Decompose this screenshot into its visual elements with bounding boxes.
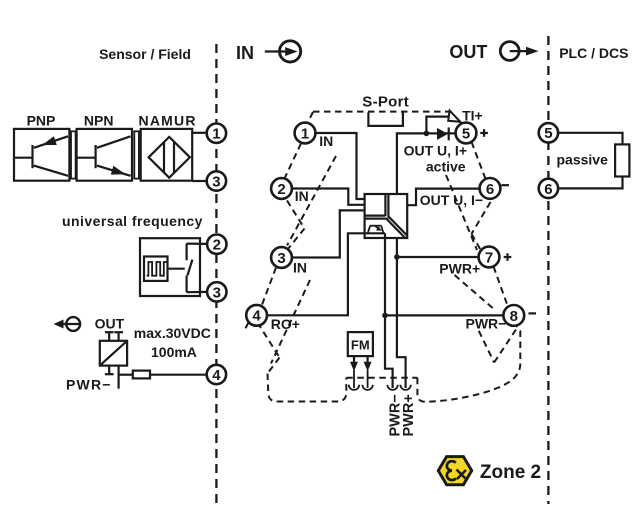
coupling NPN-NAMUR bbox=[134, 131, 139, 178]
wire PWR- : block bottom to terminal 8 and bottom plug bbox=[385, 233, 393, 388]
svg-text:RO+: RO+ bbox=[271, 316, 300, 332]
right column: terminal 5 to passive load bbox=[558, 133, 622, 145]
terminal 4 (field side) bbox=[207, 365, 226, 384]
wire OUT U,I+ : block top to terminal 5 bbox=[397, 133, 456, 194]
FM box bbox=[348, 332, 373, 388]
svg-text:3: 3 bbox=[213, 284, 221, 301]
junction dot TI+ branch bbox=[424, 131, 430, 137]
label IN 2 bbox=[293, 191, 312, 203]
svg-text:NAMUR: NAMUR bbox=[139, 113, 197, 129]
svg-text:PWR−: PWR− bbox=[66, 376, 112, 392]
dash fragment below-left of terminal 4 bbox=[244, 323, 249, 333]
svg-text:1: 1 bbox=[212, 126, 220, 143]
label - at terminal 8 bbox=[529, 312, 537, 314]
svg-text:6: 6 bbox=[544, 181, 552, 198]
svg-text:FM: FM bbox=[351, 337, 370, 352]
wire PWR+ : block bottom to terminal 7 and bottom plug bbox=[397, 238, 406, 388]
svg-text:7: 7 bbox=[485, 249, 493, 266]
device terminal 8 bbox=[503, 305, 524, 326]
coupling PNP-NPN bbox=[71, 131, 76, 178]
svg-text:100mA: 100mA bbox=[151, 344, 197, 360]
device terminal 1 bbox=[295, 123, 316, 144]
bottom plug contacts bbox=[349, 385, 359, 390]
dashed lattice left: bend to 3 bbox=[288, 229, 305, 250]
wire terminal 2 IN bbox=[292, 189, 365, 205]
wire terminal 1 IN bbox=[315, 133, 364, 199]
S-Port bracket bbox=[368, 112, 403, 126]
resistor passive load bbox=[615, 144, 629, 176]
svg-text:2: 2 bbox=[277, 181, 285, 198]
label IN 1 bbox=[317, 135, 336, 147]
label PWR+ bbox=[438, 262, 481, 275]
svg-text:PWR+: PWR+ bbox=[439, 260, 480, 276]
dashed lattice right: PWR+ diagonal to 8 bbox=[455, 275, 496, 311]
dashed lattice right: V below 8 right leg bbox=[494, 330, 516, 363]
wire NAMUR to terminal 3 bbox=[192, 180, 207, 182]
svg-text:8: 8 bbox=[510, 308, 518, 325]
dashed lattice right: active diagonal to 7 bbox=[446, 175, 477, 250]
label + at terminal 7 bbox=[504, 256, 512, 258]
svg-text:PLC / DCS: PLC / DCS bbox=[559, 45, 628, 61]
svg-text:Zone 2: Zone 2 bbox=[480, 462, 541, 483]
device terminal 2 bbox=[271, 178, 292, 199]
wire terminal 4 RO+ bbox=[267, 233, 385, 315]
label OUT U, I+ bbox=[402, 144, 466, 157]
OUT arrow icon bbox=[449, 42, 538, 62]
svg-text:universal frequency: universal frequency bbox=[62, 213, 203, 229]
terminal 1 (field side) bbox=[207, 124, 226, 143]
device terminal 6 bbox=[480, 178, 501, 199]
svg-text:3: 3 bbox=[212, 173, 220, 190]
svg-text:5: 5 bbox=[544, 125, 552, 142]
label PWR- bbox=[464, 318, 504, 331]
left zone boundary dashed line bbox=[215, 44, 217, 503]
dashed outline bottom-right corner and curve to 8 bbox=[417, 326, 520, 402]
solid-state output box bbox=[100, 332, 127, 389]
label IN 3 bbox=[291, 262, 310, 274]
device terminal 7 bbox=[479, 247, 500, 268]
svg-text:OUT U, I−: OUT U, I− bbox=[420, 192, 483, 208]
svg-text:active: active bbox=[426, 158, 466, 174]
device terminal 4 bbox=[246, 305, 267, 326]
svg-text:Sensor / Field: Sensor / Field bbox=[99, 46, 191, 62]
svg-text:3: 3 bbox=[277, 250, 285, 267]
dashed lattice right: 7 to 8 bbox=[494, 267, 508, 306]
wire load to terminal 6 bbox=[558, 177, 622, 189]
OUT arrow icon (bottom-left, pointing left) bbox=[54, 316, 125, 332]
dashed lattice right: 5 to 6 bbox=[472, 142, 487, 182]
right zone boundary dashed line bbox=[547, 36, 549, 504]
dashed lattice left: 3 to 4 bbox=[262, 268, 277, 307]
svg-text:PNP: PNP bbox=[27, 113, 56, 129]
Ex hexagon logo bbox=[438, 457, 471, 485]
dashed lattice right: V below 8 left leg bbox=[479, 331, 494, 363]
device dashed top edge bbox=[313, 111, 453, 113]
wire to resistor bbox=[119, 374, 133, 376]
wire OUT U,I- : block right to terminal 6 bbox=[407, 189, 480, 206]
dashed lattice left: 2 to bend bbox=[287, 201, 305, 229]
sensor box NPN bbox=[77, 113, 132, 181]
resistor (left) bbox=[133, 371, 150, 379]
label OUT U, I- bbox=[418, 193, 480, 206]
svg-text:NPN: NPN bbox=[84, 113, 114, 129]
IN arrow icon bbox=[236, 41, 301, 63]
wire terminal 3 IN bbox=[292, 210, 365, 257]
universal frequency box bbox=[140, 238, 207, 296]
svg-text:OUT U, I+: OUT U, I+ bbox=[404, 142, 467, 158]
TI+ open arrow bbox=[459, 121, 465, 128]
svg-text:IN: IN bbox=[319, 133, 333, 149]
dashed lattice right: 6 to bend bbox=[472, 202, 491, 234]
dashed lattice right: bend to 7 bbox=[472, 234, 482, 252]
dashed corner to terminal 1 bbox=[307, 112, 314, 125]
svg-text:passive: passive bbox=[557, 151, 609, 167]
svg-text:OUT: OUT bbox=[449, 42, 487, 62]
label active bbox=[425, 160, 466, 173]
dashed lattice left: 4 to bend bbox=[258, 323, 280, 358]
diode D1 bbox=[437, 127, 449, 140]
svg-text:1: 1 bbox=[301, 125, 309, 142]
label RO+ bbox=[268, 318, 301, 331]
device terminal 3 bbox=[271, 247, 292, 268]
svg-text:TI+: TI+ bbox=[462, 107, 483, 123]
svg-text:max.30VDC: max.30VDC bbox=[134, 325, 211, 341]
svg-text:PWR+: PWR+ bbox=[401, 394, 417, 436]
dashed lattice left: bend down bbox=[268, 358, 280, 374]
svg-text:IN: IN bbox=[295, 188, 309, 204]
label - at terminal 6 bbox=[502, 184, 510, 186]
svg-text:5: 5 bbox=[462, 125, 470, 142]
terminal 6 (PLC side) bbox=[539, 179, 558, 198]
dashed outline bottom notch top bbox=[346, 377, 417, 379]
wire NAMUR to terminal 1 bbox=[192, 132, 207, 134]
dashed lattice left: long diagonal to corner bbox=[271, 280, 310, 364]
transistor glyph inside block bbox=[370, 225, 382, 227]
terminal 3 (field side, upper) bbox=[207, 171, 226, 190]
TI+ branch wire bbox=[426, 117, 450, 134]
svg-text:2: 2 bbox=[213, 237, 221, 254]
switch bbox=[186, 244, 188, 261]
label + at terminal 5 bbox=[480, 132, 488, 134]
dashed lattice left: long diagonal to 3 bbox=[287, 156, 336, 246]
wire resistor to terminal 4 bbox=[150, 374, 207, 376]
sensor box NAMUR bbox=[139, 113, 197, 181]
svg-text:PWR−: PWR− bbox=[466, 316, 507, 332]
svg-text:S-Port: S-Port bbox=[362, 93, 409, 110]
dashed outline bottom-left corner bbox=[268, 374, 347, 402]
svg-text:4: 4 bbox=[252, 308, 261, 325]
pulse glyph bbox=[147, 262, 167, 276]
sensor box PNP bbox=[14, 113, 69, 181]
device terminal 5 bbox=[456, 123, 477, 144]
terminal 3 (field side, lower) bbox=[207, 282, 226, 301]
svg-text:4: 4 bbox=[212, 367, 221, 384]
svg-text:6: 6 bbox=[486, 181, 494, 198]
svg-text:IN: IN bbox=[236, 43, 254, 63]
terminal 5 (PLC side) bbox=[539, 123, 558, 142]
amplifier block U1 bbox=[365, 194, 408, 238]
terminal 2 (field side) bbox=[207, 235, 226, 254]
dashed lattice left: 1 to 2 bbox=[285, 144, 302, 179]
svg-text:OUT: OUT bbox=[95, 316, 125, 332]
svg-text:IN: IN bbox=[293, 260, 307, 276]
